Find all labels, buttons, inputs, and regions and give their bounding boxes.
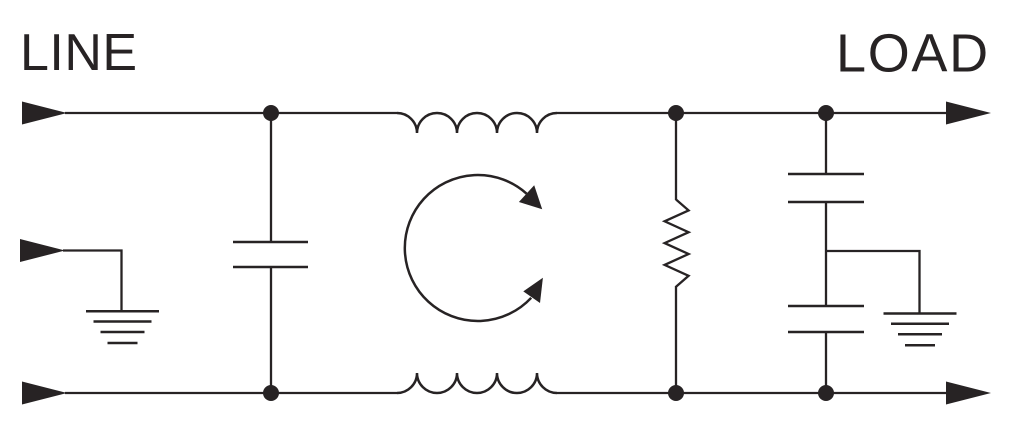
terminal arrow: load output (top-right) xyxy=(946,102,991,125)
inductor L1 (common-mode choke, top winding) xyxy=(397,113,557,133)
rotation arrowhead (bottom) xyxy=(523,278,543,303)
terminal arrow: load output (bottom-right) xyxy=(946,382,991,405)
ground (left) xyxy=(86,311,159,343)
resistor R1 bottom lead xyxy=(675,286,677,393)
resistor R1 zigzag xyxy=(665,200,689,287)
node: R1 bottom junction xyxy=(668,385,684,401)
node: C2 top junction xyxy=(818,105,834,121)
capacitor C1 (X-cap) plates xyxy=(233,242,308,267)
capacitor C1 (X-cap) top lead xyxy=(270,113,272,242)
resistor R1 top lead xyxy=(675,113,677,200)
wire: between Y-caps xyxy=(825,202,827,306)
capacitor C3 (Y-cap bottom) bottom lead xyxy=(825,332,827,393)
capacitor C1 (X-cap) bottom lead xyxy=(270,267,272,393)
wire: top line, left segment xyxy=(65,112,397,114)
wire: Y-cap midpoint to right ground xyxy=(826,251,920,313)
capacitor C2 (Y-cap top) top lead xyxy=(825,113,827,174)
node: C3 bottom junction xyxy=(818,385,834,401)
rotation arrowhead (top) xyxy=(519,185,542,209)
terminal arrow: ground input (middle-left) xyxy=(20,239,65,262)
rotation arrow arc (flux direction) xyxy=(405,175,531,321)
node: C1 bottom junction xyxy=(263,385,279,401)
terminal arrow: neutral input (bottom-left) xyxy=(22,382,67,405)
capacitor C3 (Y-cap bottom) plates xyxy=(788,306,864,332)
inductor L2 (common-mode choke, bottom winding) xyxy=(397,373,557,393)
terminal arrow: line input (top-left) xyxy=(22,102,67,125)
capacitor C2 (Y-cap top) plates xyxy=(788,174,864,202)
wire: bottom line, left segment xyxy=(65,392,397,394)
wire: ground input stub xyxy=(63,251,122,312)
svg-text:LOAD: LOAD xyxy=(836,24,990,84)
svg-text:LINE: LINE xyxy=(20,24,138,82)
wire: bottom line, right segment xyxy=(557,392,947,394)
ground (right) xyxy=(884,314,957,346)
node: R1 top junction xyxy=(668,105,684,121)
wire: top line, right segment xyxy=(557,112,947,114)
node: C1 top junction xyxy=(263,105,279,121)
